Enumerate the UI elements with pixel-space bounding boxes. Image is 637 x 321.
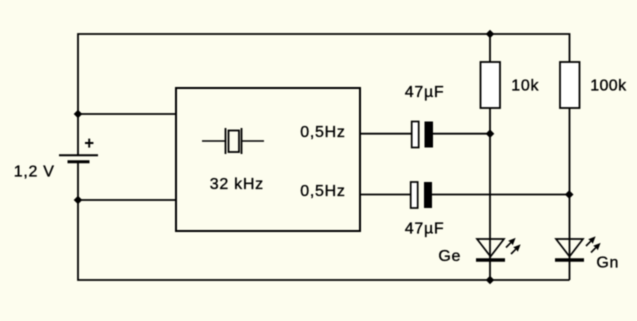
- svg-text:100k: 100k: [590, 77, 627, 94]
- svg-text:0,5Hz: 0,5Hz: [300, 183, 345, 200]
- svg-text:32 kHz: 32 kHz: [210, 176, 264, 193]
- svg-text:47µF: 47µF: [405, 84, 445, 101]
- svg-text:0,5Hz: 0,5Hz: [300, 124, 345, 141]
- svg-text:47µF: 47µF: [405, 221, 445, 238]
- svg-text:10k: 10k: [511, 77, 539, 94]
- svg-text:Gn: Gn: [596, 254, 619, 271]
- svg-text:Ge: Ge: [438, 248, 461, 265]
- svg-text:1,2 V: 1,2 V: [14, 163, 55, 180]
